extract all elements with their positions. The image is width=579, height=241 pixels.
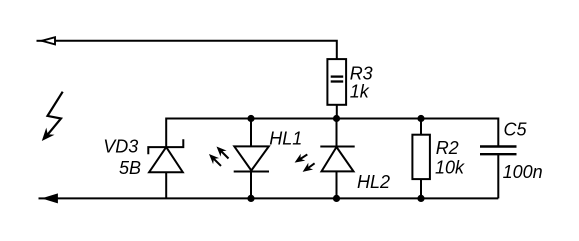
svg-text:HL2: HL2 bbox=[357, 172, 390, 192]
node HL1-rail bbox=[247, 195, 254, 202]
wire HL1 branch top bbox=[250, 119, 252, 147]
svg-text:1k: 1k bbox=[350, 81, 370, 101]
svg-text:100n: 100n bbox=[503, 162, 543, 182]
node R3/HL2-bus bbox=[333, 115, 340, 122]
HL1 emission arrows bbox=[209, 147, 229, 166]
HL2 emission arrows bbox=[295, 154, 315, 172]
LED HL2 bbox=[320, 147, 354, 172]
svg-text:VD3: VD3 bbox=[103, 136, 138, 156]
node R2-bus bbox=[417, 115, 424, 122]
wire top rail bbox=[56, 41, 337, 59]
node HL2-rail bbox=[333, 195, 340, 202]
wire R2 branch top bbox=[420, 119, 422, 135]
junction nodes bbox=[247, 115, 424, 202]
terminal arrow top (hollow, input) bbox=[37, 37, 56, 44]
svg-text:10k: 10k bbox=[435, 157, 465, 177]
svg-text:R2: R2 bbox=[436, 138, 459, 158]
svg-text:C5: C5 bbox=[504, 120, 528, 140]
terminal arrow bottom (solid, output) bbox=[39, 193, 58, 203]
capacitor C5 bbox=[480, 147, 517, 199]
wire HL2 branch top bbox=[336, 119, 338, 148]
wire HL2 branch bottom bbox=[336, 171, 338, 198]
zener diode VD3 bbox=[148, 139, 183, 198]
svg-text:5В: 5В bbox=[119, 158, 141, 178]
wire R3 to bus bbox=[336, 105, 338, 119]
resistor R3 bbox=[327, 59, 346, 105]
wire R2 branch bottom bbox=[420, 179, 422, 198]
svg-text:HL1: HL1 bbox=[269, 129, 302, 149]
LED HL1 bbox=[234, 146, 269, 171]
wire bottom rail bbox=[57, 197, 498, 199]
node R2-rail bbox=[417, 195, 424, 202]
node HL1-bus bbox=[247, 115, 254, 122]
resistor R2 bbox=[412, 135, 430, 179]
wire middle bus bbox=[166, 119, 498, 148]
wire HL1 branch bottom bbox=[250, 172, 252, 199]
lightning bolt (strobe input) bbox=[42, 92, 63, 141]
